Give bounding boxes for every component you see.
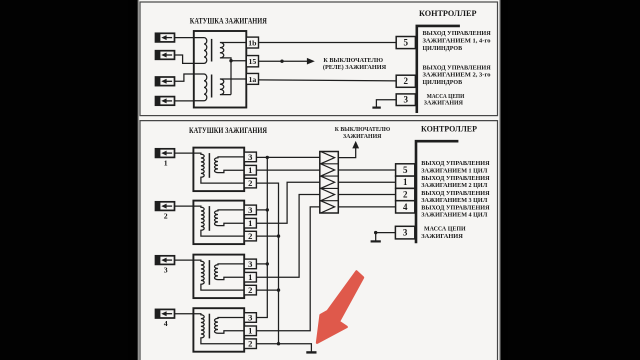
svg-text:2: 2 <box>248 231 252 241</box>
svg-text:2: 2 <box>248 339 252 349</box>
bottom diagram frame <box>140 121 498 360</box>
red annotation arrow <box>317 272 363 343</box>
coil 3 secondary winding <box>193 260 244 290</box>
svg-text:ЗАЖИГАНИЕМ 2 ЦИЛ: ЗАЖИГАНИЕМ 2 ЦИЛ <box>421 182 487 189</box>
ignition coil 4 <box>193 308 256 352</box>
svg-text:2: 2 <box>248 178 252 188</box>
svg-text:КАТУШКА ЗАЖИГАНИЯ: КАТУШКА ЗАЖИГАНИЯ <box>190 15 267 25</box>
svg-text:КОНТРОЛЛЕР: КОНТРОЛЛЕР <box>421 123 478 133</box>
svg-text:1b: 1b <box>248 38 257 47</box>
wire connector A to module <box>175 37 194 39</box>
svg-text:ЗАЖИГАНИЯ: ЗАЖИГАНИЯ <box>424 100 463 107</box>
coil 2 pin 2 <box>244 231 256 241</box>
svg-text:3: 3 <box>248 152 252 162</box>
coil 1 pin 1 <box>244 165 256 175</box>
wire coil2 pin3 to power bus <box>256 209 267 211</box>
wire pin 15 to ignition switch <box>259 60 308 62</box>
internal junction node <box>229 59 232 62</box>
wire block cell2 to controller <box>338 169 395 171</box>
svg-text:ЗАЖИГАНИЕМ 1, 4-го: ЗАЖИГАНИЕМ 1, 4-го <box>423 38 492 45</box>
coil 2 primary winding <box>215 210 245 226</box>
svg-text:ВЫХОД УПРАВЛЕНИЯ: ВЫХОД УПРАВЛЕНИЯ <box>423 64 491 71</box>
svg-text:1: 1 <box>248 165 252 175</box>
controller pin 2 (bottom) <box>396 188 415 200</box>
svg-text:ЦИЛИНДРОВ: ЦИЛИНДРОВ <box>423 79 463 86</box>
svg-text:1: 1 <box>248 218 252 228</box>
coil 3 pin 1 <box>244 272 256 282</box>
coil 4 core <box>208 314 210 339</box>
controller pin 1 (bottom) <box>396 176 415 188</box>
labels: ignition control outputs cyl 1-4 <box>421 160 489 219</box>
label: ignition circuit ground (bottom) <box>421 226 466 240</box>
module pin 1b <box>246 37 258 48</box>
spark plug connector C (cyl 3) <box>155 77 174 86</box>
spark plug connector 3 <box>155 255 174 274</box>
coil 1 pin 3 <box>244 152 256 162</box>
coil 2 pin 1 <box>244 218 256 228</box>
wire spark connector 1 to coil <box>175 152 194 154</box>
junction on pin 15 wire <box>280 60 283 63</box>
wire connector C to module (jog up) <box>175 74 194 81</box>
svg-text:ЗАЖИГАНИЕМ 3 ЦИЛ: ЗАЖИГАНИЕМ 3 ЦИЛ <box>421 197 487 204</box>
coil 3 primary winding <box>214 264 244 280</box>
controller (top) outline corner <box>417 26 460 113</box>
svg-text:1: 1 <box>248 326 252 336</box>
wire coil1 pin1 to block cell2 <box>256 169 319 171</box>
svg-text:3: 3 <box>404 95 409 105</box>
ignition coil 2 <box>193 201 256 245</box>
wire spark connector 3 to coil <box>175 259 194 261</box>
coil 2 secondary winding <box>193 206 244 236</box>
coil 2 core <box>208 206 210 231</box>
ground bus from coil1 pin2 <box>256 183 278 344</box>
harness connector block <box>320 152 339 214</box>
svg-text:МАССА ЦЕПИ: МАССА ЦЕПИ <box>424 226 466 233</box>
svg-text:(РЕЛЕ) ЗАЖИГАНИЯ: (РЕЛЕ) ЗАЖИГАНИЯ <box>323 64 386 71</box>
wire block cell4 to coil3 pin1 <box>256 195 319 278</box>
svg-text:ЗАЖИГАНИЕМ 1 ЦИЛ: ЗАЖИГАНИЕМ 1 ЦИЛ <box>421 167 487 174</box>
svg-text:К ВЫКЛЮЧАТЕЛЮ: К ВЫКЛЮЧАТЕЛЮ <box>335 126 391 133</box>
spark plug connector D (cyl 4) <box>155 96 174 105</box>
ignition coil 1 <box>193 148 256 192</box>
svg-text:4: 4 <box>164 319 168 328</box>
controller pin 2 <box>396 75 415 87</box>
coil 3 pin 2 <box>244 285 256 295</box>
svg-text:КОНТРОЛЛЕР: КОНТРОЛЛЕР <box>419 8 477 18</box>
controller pin 4 (bottom) <box>396 201 415 213</box>
left letterbox bar <box>0 0 137 360</box>
svg-text:1: 1 <box>164 158 168 167</box>
wire coil1 pin3 to connector block cell1 (power feed) <box>256 156 319 158</box>
power bus vertical <box>256 157 267 317</box>
wire coil3 pin2 to ground bus <box>256 289 278 291</box>
transformer 2 core <box>211 75 213 98</box>
coil 3 core <box>208 260 210 285</box>
spark plug connector 1 <box>155 148 174 167</box>
controller pin 5 (bottom) <box>396 164 415 176</box>
svg-text:ЦИЛИНДРОВ: ЦИЛИНДРОВ <box>423 45 463 52</box>
wire block cell1 to ignition switch <box>338 148 355 158</box>
wire spark connector 2 to coil <box>175 205 194 207</box>
svg-text:15: 15 <box>249 57 257 66</box>
svg-text:3: 3 <box>403 228 408 238</box>
spark plug connector A (cyl 1) <box>155 33 174 42</box>
svg-text:4: 4 <box>403 202 408 212</box>
wire coil2 pin2 to ground bus <box>256 235 278 237</box>
wire block cell5 to controller <box>338 206 395 208</box>
right letterbox bar <box>501 0 640 360</box>
coil 4 primary winding <box>214 318 244 334</box>
internal wire primary common to pin 15 <box>230 61 232 95</box>
transformer 1 secondary winding <box>194 38 207 64</box>
spark plug connector 2 <box>155 201 174 220</box>
ground (bottom controller) <box>371 240 381 242</box>
ignition coil 3 <box>193 255 256 299</box>
chassis ground (bottom) <box>306 351 316 353</box>
svg-text:КАТУШКИ ЗАЖИГАНИЯ: КАТУШКИ ЗАЖИГАНИЯ <box>189 125 267 135</box>
svg-text:1a: 1a <box>249 75 257 84</box>
wire block cell5 to coil4 pin1 <box>256 207 319 331</box>
svg-text:1: 1 <box>248 272 252 282</box>
module pin 15 <box>246 56 258 67</box>
transformer 2 secondary winding <box>194 74 207 101</box>
ignition coil module box <box>194 31 247 108</box>
coil 1 secondary winding <box>193 153 244 183</box>
transformer 2 primary winding <box>220 79 246 95</box>
svg-text:ВЫХОД УПРАВЛЕНИЯ: ВЫХОД УПРАВЛЕНИЯ <box>421 205 489 212</box>
spark plug connector B (cyl 2) <box>155 50 174 59</box>
controller (bottom) outline corner <box>416 141 458 243</box>
wire connector B to module (jog down) <box>175 55 194 63</box>
coil 4 pin 3 <box>244 312 256 322</box>
wire pin 1b to controller pin 5 <box>259 42 397 44</box>
coil 4 secondary winding <box>193 314 244 344</box>
svg-text:2: 2 <box>164 211 168 220</box>
svg-text:ЗАЖИГАНИЯ: ЗАЖИГАНИЯ <box>421 233 463 240</box>
junction power bus top <box>266 156 269 159</box>
wire connector D to module <box>175 100 194 102</box>
svg-text:ЗАЖИГАНИЕМ 4 ЦИЛ: ЗАЖИГАНИЕМ 4 ЦИЛ <box>421 212 487 219</box>
controller pin 3 (bottom) <box>395 226 414 239</box>
svg-text:3: 3 <box>248 259 252 269</box>
svg-text:2: 2 <box>403 189 408 199</box>
ground (top diagram) <box>372 106 380 108</box>
svg-text:5: 5 <box>403 165 408 175</box>
wire coil3 pin3 to power bus <box>256 263 267 265</box>
svg-text:3: 3 <box>248 205 252 215</box>
wire controller pin 3 to ground <box>376 100 396 107</box>
controller pin 3 <box>396 94 415 106</box>
label: ignition circuit ground (top) <box>424 93 465 106</box>
svg-text:1: 1 <box>403 177 408 187</box>
svg-text:3: 3 <box>164 265 168 274</box>
svg-text:3: 3 <box>248 312 252 322</box>
transformer 1 primary winding <box>220 43 246 61</box>
svg-text:2: 2 <box>248 285 252 295</box>
label: ignition control output cyl 2,3 <box>423 64 492 86</box>
svg-text:ВЫХОД УПРАВЛЕНИЯ: ВЫХОД УПРАВЛЕНИЯ <box>421 160 489 167</box>
coil 4 pin 2 <box>244 339 256 349</box>
label: ignition control output cyl 1,4 <box>423 30 492 52</box>
coil 4 pin 1 <box>244 326 256 336</box>
wire block cell4 to controller <box>338 194 395 196</box>
svg-text:5: 5 <box>404 37 409 47</box>
controller pin 5 <box>396 37 415 49</box>
svg-text:ВЫХОД УПРАВЛЕНИЯ: ВЫХОД УПРАВЛЕНИЯ <box>421 190 489 197</box>
arrowhead to ignition switch <box>307 58 315 65</box>
coil 1 pin 2 <box>244 178 256 188</box>
coil 2 pin 3 <box>244 205 256 215</box>
svg-text:ВЫХОД УПРАВЛЕНИЯ: ВЫХОД УПРАВЛЕНИЯ <box>423 30 491 37</box>
module pin 1a <box>246 73 258 84</box>
coil 1 primary winding <box>215 157 245 173</box>
svg-text:2: 2 <box>404 76 409 86</box>
wire spark connector 4 to coil <box>175 313 194 315</box>
svg-text:ЗАЖИГАНИЯ: ЗАЖИГАНИЯ <box>343 133 382 140</box>
spark plug connector 4 <box>155 309 174 328</box>
wire controller pin 3 to ground (bottom) <box>376 233 396 241</box>
top diagram frame <box>140 2 498 116</box>
wire block cell3 to coil2 pin1 <box>256 182 319 223</box>
coil 3 pin 3 <box>244 259 256 269</box>
wire coil4 pin2 to chassis ground <box>256 344 311 352</box>
transformer 1 core <box>211 39 213 62</box>
coil 1 core <box>208 153 210 178</box>
wire block cell3 to controller <box>338 181 395 183</box>
arrowhead up to ignition switch <box>352 141 359 149</box>
svg-text:ВЫХОД УПРАВЛЕНИЯ: ВЫХОД УПРАВЛЕНИЯ <box>421 175 489 182</box>
wire pin 1a to controller pin 2 <box>259 80 397 81</box>
svg-text:ЗАЖИГАНИЕМ 2, 3-го: ЗАЖИГАНИЕМ 2, 3-го <box>423 72 492 79</box>
